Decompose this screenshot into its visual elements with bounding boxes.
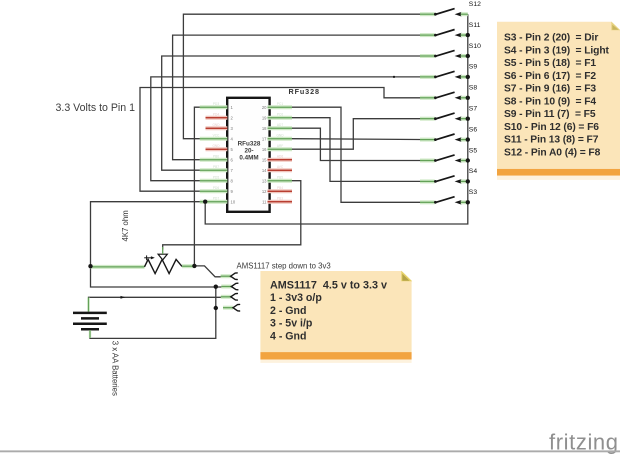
junction bus at S10 [466,54,470,58]
junction bus at S6 [466,137,470,141]
U1 pin 3 [206,123,234,131]
U1 pin 4 [200,134,234,142]
wire U1 pin20 to S3 [292,107,435,202]
svg-text:S7 - Pin 9 (16) = F3: S7 - Pin 9 (16) = F3 [504,84,596,95]
svg-text:PB3: PB3 [277,197,283,201]
svg-text:PD3: PD3 [213,102,219,106]
svg-text:S4 - Pin 3 (19) = Light: S4 - Pin 3 (19) = Light [504,45,610,56]
U1 pin 8 [200,176,234,184]
U1 pin 2 [206,113,234,121]
svg-text:PD4: PD4 [213,113,219,117]
svg-text:13: 13 [262,178,267,183]
svg-text:PB5: PB5 [277,176,283,180]
svg-text:14: 14 [262,168,267,173]
wire battery plus to J1 pin3 [89,297,231,305]
wire U1 pin10 gnd to J1 pin2 [91,202,232,287]
U1 pin 16 [262,144,292,152]
U1 pin 12 [262,186,292,194]
junction gnd at J1 pin4 [214,306,218,310]
junction bus at S5 [466,158,470,162]
junction U1 pin10 / gnd bus [203,200,207,204]
svg-text:S7: S7 [469,106,478,113]
switch S4 [420,168,477,184]
svg-text:GND: GND [276,134,284,138]
U1 pin 20 [262,102,292,110]
svg-text:S3: S3 [469,189,478,196]
wire U1 pin6 to S11 [173,35,435,160]
svg-text:S5: S5 [469,147,478,154]
wire U1 pin18 to S5 [292,128,435,160]
U1 pin 10 [200,197,236,205]
switch S10 [420,43,481,59]
wire U1 pin13 to trimmer wiper [163,181,301,249]
junction gnd at J1 pin2 [214,285,218,289]
bendpoint arrow on battery plus wire [121,296,126,299]
U1 pin 14 [262,165,292,173]
label 4K7 ohm [121,210,130,241]
switch S3 [420,189,477,205]
U1 pin 11 [262,197,292,205]
svg-text:ARF: ARF [277,144,283,148]
svg-text:4 - Gnd: 4 - Gnd [270,330,307,342]
svg-text:S11 - Pin 13 (8) = F7: S11 - Pin 13 (8) = F7 [504,135,599,146]
label 3.3 Volts to Pin 1 [56,102,136,114]
svg-text:18: 18 [262,126,267,131]
U1 pin 15 [262,155,292,163]
junction bus at S4 [466,179,470,183]
svg-text:GND: GND [212,123,220,127]
svg-text:S5 - Pin 5 (18) = F1: S5 - Pin 5 (18) = F1 [504,58,596,69]
trimmer resistor RV1 4K7 ohm [91,247,195,274]
label AMS1117 step down to 3v3 [237,261,331,270]
svg-text:11: 11 [262,199,267,204]
wire battery minus / gnd to J1 pin4 [90,287,216,339]
svg-text:PB6: PB6 [213,155,219,159]
fritzing watermark [549,430,619,454]
svg-text:S9: S9 [469,64,478,71]
svg-text:PD6: PD6 [213,186,219,190]
wire U1 pin7 to S10 [162,56,435,170]
junction bus at S7 [466,117,470,121]
svg-text:2 - Gnd: 2 - Gnd [270,305,307,317]
U1 pin 1 [200,102,234,110]
wire U1 pin8 to S9 [151,77,435,181]
svg-text:S11: S11 [469,22,481,29]
junction bus at S3 [466,200,470,204]
svg-text:20: 20 [262,105,267,110]
svg-text:19: 19 [262,115,267,120]
svg-text:S3 - Pin 2 (20) = Dir: S3 - Pin 2 (20) = Dir [504,33,598,44]
svg-text:AVC: AVC [277,165,284,169]
switch S12 [420,1,481,17]
svg-text:AMS1117 4.5 v to 3.3 v: AMS1117 4.5 v to 3.3 v [270,280,387,292]
label 3 x AA Batteries [110,341,119,396]
U1 pin 13 [262,176,292,184]
svg-text:0.4MM: 0.4MM [239,154,258,161]
U1 pin 19 [262,113,292,121]
svg-text:S8: S8 [469,85,478,92]
switch S7 [420,106,477,122]
junction bus at S8 [466,96,470,100]
svg-text:PC1: PC1 [277,102,283,106]
svg-text:S8 - Pin 10 (9) = F4: S8 - Pin 10 (9) = F4 [504,96,596,107]
wire U1 pin4 to S12 [183,14,434,139]
switch S9 [420,64,477,80]
svg-text:3 - 5v i/p: 3 - 5v i/p [270,318,313,330]
wire U1 pin16 to S7 [292,119,435,150]
note: AMS1117 pinout [260,271,412,363]
U1 pin 6 [200,155,234,163]
svg-text:AD7: AD7 [277,123,283,127]
switch S11 [420,22,481,38]
junction bus at S11 [466,33,470,37]
svg-text:S10 - Pin 12 (6) = F6: S10 - Pin 12 (6) = F6 [504,122,599,133]
svg-text:12: 12 [262,189,267,194]
svg-text:17: 17 [262,136,267,141]
U1 pin 9 [200,186,234,194]
svg-text:3.3 Volts to Pin 1: 3.3 Volts to Pin 1 [56,102,136,114]
label U1 part name RFu328 [289,87,320,96]
junction gnd at trimmer left [88,264,92,268]
U1 pin 17 [262,134,292,142]
IC U1 RFu328 body [227,98,269,212]
wire U1 pin17 to S6 [292,138,435,141]
switch S5 [420,147,477,163]
svg-text:1 - 3v3 o/p: 1 - 3v3 o/p [270,292,322,304]
header J1 pin 2 (gnd) [221,283,238,290]
svg-text:4K7 ohm: 4K7 ohm [121,210,130,241]
svg-text:VCC: VCC [213,134,220,138]
svg-text:S12 - Pin A0 (4) = F8: S12 - Pin A0 (4) = F8 [504,147,601,158]
svg-text:10: 10 [231,199,236,204]
svg-text:S6 - Pin 6 (17) = F2: S6 - Pin 6 (17) = F2 [504,71,596,82]
svg-text:S4: S4 [469,168,478,175]
switch S8 [420,85,477,101]
note: switch to pin mapping [497,22,620,180]
wire U1 pin9 to S8 [140,88,435,192]
switch S6 [420,126,477,142]
svg-text:PD5: PD5 [213,176,219,180]
wire U1 pin19 to S4 [292,118,435,182]
svg-text:3 x AA Batteries: 3 x AA Batteries [110,341,119,396]
svg-text:AMS1117 step down to 3v3: AMS1117 step down to 3v3 [237,261,331,270]
U1 pin 18 [262,123,292,131]
svg-text:S9 - Pin 11 (7) = F5: S9 - Pin 11 (7) = F5 [504,109,596,120]
junction 3v3 node at trimmer right [192,264,196,268]
wire 3v3 node to U1 pin1 [194,107,205,266]
svg-text:S10: S10 [469,43,481,50]
svg-text:AD6: AD6 [277,155,283,159]
svg-text:PD7: PD7 [213,197,219,201]
svg-text:PB4: PB4 [277,186,283,190]
svg-text:fritzing: fritzing [549,430,619,454]
svg-text:S12: S12 [469,1,481,8]
wire 3v3 node to J1 pin1 [194,266,230,277]
svg-text:PB7: PB7 [213,165,219,169]
U1 pin 5 [206,144,234,152]
svg-text:PC0: PC0 [277,113,283,117]
svg-text:15: 15 [262,157,267,162]
header J1 pin 4 (gnd) [223,304,240,311]
header J1 pin 1 (3v3 out) [221,273,238,280]
svg-text:S6: S6 [469,126,478,133]
svg-text:RFu328: RFu328 [289,87,320,96]
ground bus wire [205,14,468,224]
header J1 pin 3 (5v in) [221,294,238,301]
U1 pin 7 [200,165,234,173]
svg-text:16: 16 [262,147,267,152]
battery BT1 3 x AA [73,298,107,339]
bendpoint on S9 wire [393,76,395,78]
svg-text:GND: GND [212,144,220,148]
junction bus at S9 [466,75,470,79]
